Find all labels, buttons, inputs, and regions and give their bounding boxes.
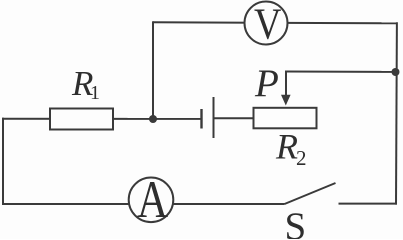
svg-text:V: V — [254, 0, 282, 48]
wire: right vertical side — [395, 22, 398, 204]
node: junction dot on right vertical (wiper tap) — [392, 68, 400, 76]
battery cell: long plate — [213, 97, 215, 138]
resistor R1 box — [50, 109, 113, 130]
wire: voltmeter branch vertical (down to middle junction) — [152, 21, 154, 119]
svg-text:A: A — [137, 171, 168, 229]
wire: wiper horizontal to right vertical — [286, 71, 396, 73]
wire: wiper vertical drop — [285, 71, 287, 98]
ammeter U-A circle — [129, 178, 174, 223]
svg-text:P: P — [254, 62, 279, 105]
voltmeter U-V circle — [245, 2, 288, 45]
wire: middle wire (left corner to battery) — [2, 118, 201, 120]
svg-text:1: 1 — [90, 82, 100, 104]
switch S blade — [285, 183, 336, 204]
wiper arrowhead onto R2 — [281, 95, 291, 106]
rheostat R2 box — [254, 108, 317, 129]
wire: top wire from V-branch corner to top-right corner — [153, 22, 397, 23]
svg-text:2: 2 — [296, 146, 307, 170]
node: junction dot at voltmeter branch and middle wire — [149, 115, 157, 123]
wire: left vertical side — [2, 118, 4, 205]
wire: battery to R2 — [214, 117, 255, 119]
wire: switch right contact to bottom-right corner — [339, 203, 398, 205]
svg-text:R: R — [275, 127, 298, 167]
wire: bottom wire from left corner to switch pivot — [2, 203, 285, 205]
svg-text:S: S — [285, 205, 307, 239]
battery cell: short plate — [200, 109, 202, 129]
